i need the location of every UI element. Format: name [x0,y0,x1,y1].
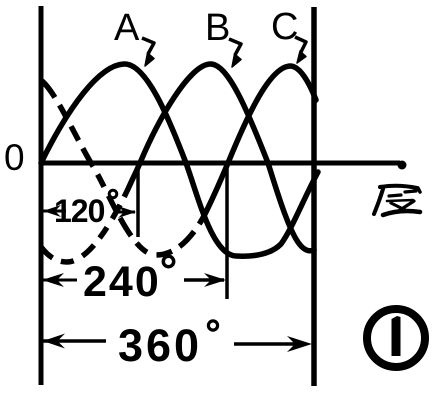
svg-text:C: C [271,6,298,48]
svg-text:0: 0 [4,137,25,178]
figure number: circled 1 [367,309,425,367]
wave C solid part [204,66,316,216]
240 deg dimension right arrow [184,278,224,282]
360 deg degree symbol [208,321,217,330]
120 deg dimension left arrow [43,205,61,217]
tick line 120 deg [136,163,140,237]
right boundary line (360 deg) [311,7,317,386]
tick line 240 deg [225,163,229,299]
label B flick arrow [229,39,241,55]
y-axis (left vertical line) [39,6,44,385]
x-axis unit label: hand-drawn CJK character "du" (degree) [374,186,420,215]
digit 1 inside circle [392,316,401,356]
wave B dashed part (first 120 deg) [41,189,128,262]
svg-text:A: A [114,7,140,49]
360 deg dimension left arrow [43,334,65,349]
x-axis end dot [398,161,407,170]
svg-text:360: 360 [118,320,202,371]
svg-text:120: 120 [54,193,105,229]
label C flick arrow [295,37,306,52]
120 deg dimension right arrow [114,211,135,214]
360 deg dimension right arrow [234,342,305,346]
svg-text:B: B [205,7,230,49]
240 deg dimension left arrow [42,273,64,287]
wave B solid part [128,64,314,251]
wave A (solid sine, phase 0) [41,64,318,256]
x-axis (horizontal axis) [39,161,400,166]
240 deg degree symbol [163,256,173,266]
120 deg degree symbol [109,190,117,198]
label A flick arrow [142,38,154,54]
wave C dashed part (first 240 deg) [42,81,204,255]
svg-text:240: 240 [83,258,161,306]
